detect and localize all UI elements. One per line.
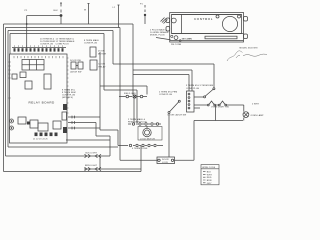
svg-text:MODEL PLUG: MODEL PLUG: [150, 35, 165, 37]
svg-text:W: W: [84, 10, 86, 12]
svg-text:MOTOR: MOTOR: [98, 54, 107, 56]
svg-text:FEM CONN PLUG: FEM CONN PLUG: [128, 121, 147, 123]
svg-text:CONN PLUG: CONN PLUG: [56, 44, 70, 46]
svg-text:DOOR: DOOR: [99, 64, 106, 66]
svg-text:L2: L2: [113, 7, 116, 9]
svg-text:P1: P1: [140, 4, 143, 6]
svg-text:BLK: BLK: [207, 172, 212, 174]
svg-text:BLK LIGHT: BLK LIGHT: [86, 152, 98, 154]
svg-text:4 TERM CONN: 4 TERM CONN: [132, 148, 148, 150]
svg-text:BLK: BLK: [54, 10, 59, 12]
svg-text:FIELD GND: FIELD GND: [124, 93, 136, 95]
svg-text:3 TERM M & 3 TERM FEM: 3 TERM M & 3 TERM FEM: [186, 85, 213, 87]
svg-text:LOCK MOTOR: LOCK MOTOR: [140, 138, 155, 140]
svg-text:(MODELS): (MODELS): [62, 97, 73, 99]
svg-text:WIRE CODE: WIRE CODE: [202, 167, 215, 169]
svg-text:LATCH SW: LATCH SW: [70, 71, 81, 74]
svg-text:OVEN LIGHT SW: OVEN LIGHT SW: [211, 107, 229, 109]
svg-text:1M CONN: 1M CONN: [182, 39, 193, 41]
svg-text:DOOR: DOOR: [98, 51, 105, 53]
svg-text:DOOR: DOOR: [162, 159, 169, 161]
svg-text:DOOR LATCH SW: DOOR LATCH SW: [168, 114, 187, 117]
svg-text:CONN PLUG: CONN PLUG: [84, 43, 98, 45]
svg-text:CONN PLUG: CONN PLUG: [159, 94, 173, 96]
svg-text:J1 J2 J3 J4 J5: J1 J2 J3 J4 J5: [33, 139, 48, 141]
svg-text:WHT: WHT: [207, 174, 213, 176]
svg-text:CONN PLUG: CONN PLUG: [186, 88, 200, 90]
svg-text:RED: RED: [207, 177, 212, 179]
svg-text:2M CONN: 2M CONN: [171, 44, 182, 46]
svg-text:2 WHT: 2 WHT: [252, 104, 260, 106]
svg-text:CONTROL: CONTROL: [194, 17, 213, 21]
svg-text:DOOR SW: DOOR SW: [70, 60, 81, 62]
svg-text:RELAY: RELAY: [99, 66, 107, 69]
svg-text:OVEN LAMP: OVEN LAMP: [251, 114, 265, 117]
svg-text:BRN: BRN: [207, 180, 212, 182]
svg-text:RELAY BOARD: RELAY BOARD: [29, 101, 55, 105]
svg-text:MODEL 363.9378: MODEL 363.9378: [240, 48, 259, 50]
svg-text:BRN LIGHT: BRN LIGHT: [85, 165, 98, 167]
svg-text:GRY: GRY: [207, 183, 212, 185]
svg-text:CONN PLUG: CONN PLUG: [40, 44, 54, 46]
svg-text:LOCK: LOCK: [162, 162, 169, 164]
svg-text:P2: P2: [25, 10, 28, 12]
